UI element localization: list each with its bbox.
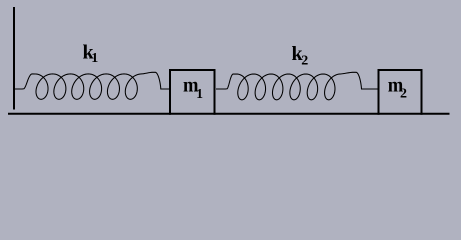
wall (left fixed support) (13, 7, 15, 110)
svg-text:2: 2 (400, 86, 407, 101)
mass m2 box (379, 70, 422, 115)
spring k2 (mass m1 to mass m2) (216, 72, 378, 100)
svg-text:2: 2 (301, 53, 308, 68)
svg-text:1: 1 (91, 51, 98, 66)
floor (ground line) (8, 113, 450, 115)
svg-text:1: 1 (196, 86, 203, 101)
mass m1 box (170, 70, 215, 115)
spring k1 (wall to mass m1) (15, 72, 170, 99)
